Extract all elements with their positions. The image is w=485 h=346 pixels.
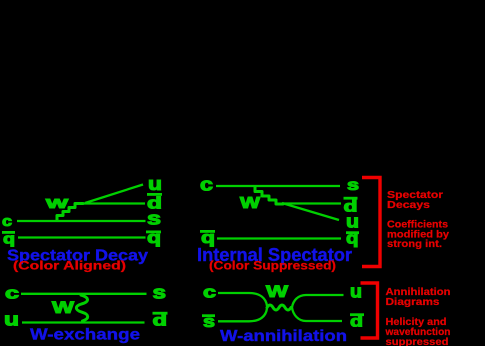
svg-text:W: W bbox=[46, 196, 69, 211]
svg-text:W-annihilation: W-annihilation bbox=[220, 328, 347, 345]
svg-text:s: s bbox=[153, 283, 167, 303]
svg-text:Decays: Decays bbox=[387, 199, 430, 211]
svg-text:u: u bbox=[148, 174, 162, 194]
svg-text:c: c bbox=[203, 283, 216, 302]
svg-text:W: W bbox=[266, 282, 289, 301]
svg-text:q: q bbox=[3, 231, 15, 248]
svg-text:(Color Suppressed): (Color Suppressed) bbox=[209, 261, 336, 273]
svg-text:c: c bbox=[2, 213, 12, 230]
svg-text:W: W bbox=[52, 298, 75, 317]
svg-text:suppressed: suppressed bbox=[386, 336, 449, 346]
svg-text:c: c bbox=[5, 284, 19, 303]
svg-text:q: q bbox=[147, 228, 161, 247]
svg-text:W: W bbox=[240, 195, 261, 212]
svg-text:s: s bbox=[347, 177, 359, 194]
svg-text:u: u bbox=[4, 310, 19, 330]
svg-text:c: c bbox=[200, 175, 213, 195]
svg-text:d: d bbox=[153, 313, 168, 330]
svg-text:Diagrams: Diagrams bbox=[386, 296, 440, 308]
svg-text:d: d bbox=[350, 314, 363, 331]
svg-text:u: u bbox=[350, 282, 362, 302]
svg-text:W-exchange: W-exchange bbox=[30, 327, 140, 344]
svg-text:strong int.: strong int. bbox=[387, 238, 442, 250]
svg-text:s: s bbox=[203, 312, 215, 331]
svg-text:s: s bbox=[147, 209, 161, 229]
svg-text:(Color Aligned): (Color Aligned) bbox=[13, 261, 126, 273]
